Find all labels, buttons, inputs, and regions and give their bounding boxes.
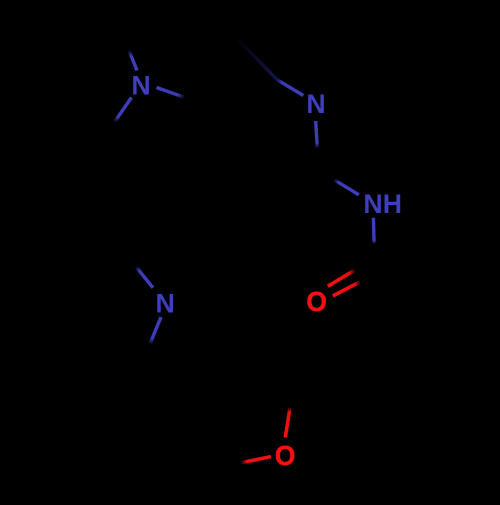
double bond C=O lower line	[333, 282, 361, 296]
bond NH-C(=O)	[372, 218, 376, 244]
svg-text:O: O	[275, 439, 296, 471]
bond N1-C2	[115, 98, 132, 123]
double bond C=O upper line	[328, 270, 355, 286]
bond N1-CH3 (methyl on pyrrole N)	[129, 50, 137, 71]
bond N1-C7a	[157, 88, 185, 98]
bond Namine-CH2 (lower)	[150, 317, 161, 344]
bond Ofuran-C2furan	[285, 408, 290, 438]
bond Npyridine-C7 faint half	[238, 40, 277, 80]
bond Ofuran-C5furan	[242, 457, 272, 463]
svg-text:NH: NH	[363, 189, 402, 219]
svg-text:N: N	[306, 89, 325, 119]
bond C5-NH	[334, 180, 359, 195]
bond Npyridine-C5	[316, 121, 318, 149]
bond Npyridine-C7 bright half	[277, 79, 304, 95]
svg-text:N: N	[131, 71, 150, 101]
bond Namine-CH2 (upper)	[136, 267, 153, 288]
svg-text:N: N	[156, 288, 175, 318]
svg-text:O: O	[306, 285, 327, 317]
